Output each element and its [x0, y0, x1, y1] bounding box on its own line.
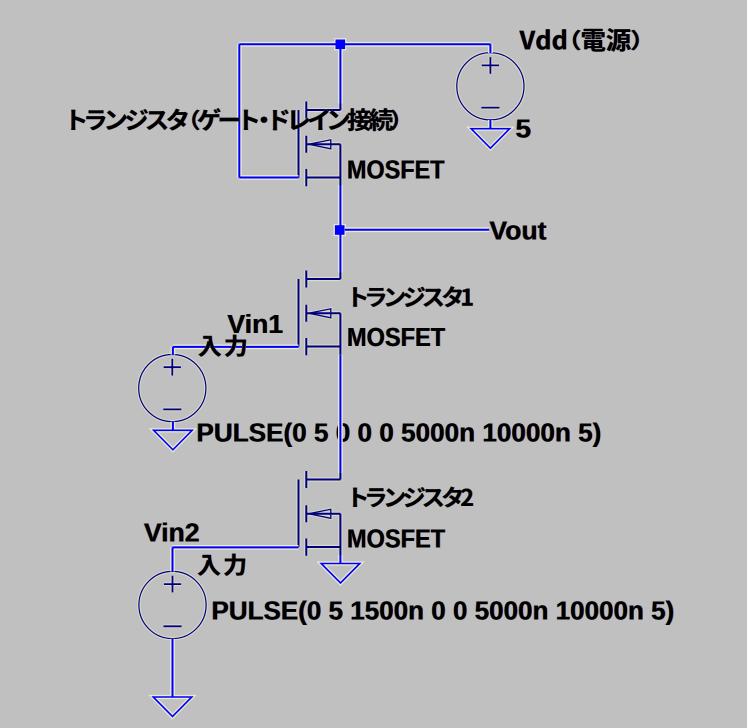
svg-text:Vin2: Vin2	[144, 519, 200, 547]
svg-text:5: 5	[516, 114, 532, 144]
svg-text:PULSE(0 5 1500n 0 0 5000n 1000: PULSE(0 5 1500n 0 0 5000n 10000n 5)	[212, 597, 675, 625]
svg-text:PULSE(0 5 0 0 0 5000n 10000n 5: PULSE(0 5 0 0 0 5000n 10000n 5)	[197, 420, 602, 448]
svg-text:MOSFET: MOSFET	[347, 526, 446, 554]
svg-text:MOSFET: MOSFET	[347, 156, 445, 184]
svg-text:MOSFET: MOSFET	[347, 324, 446, 352]
svg-text:Vout: Vout	[490, 217, 548, 245]
